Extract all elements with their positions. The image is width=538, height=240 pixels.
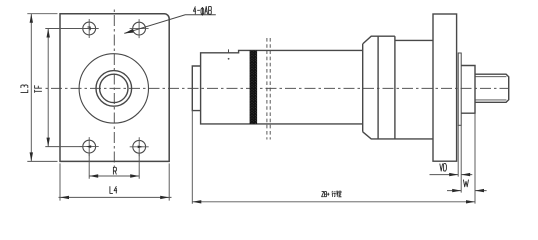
rod hub bbox=[461, 66, 475, 114]
flange (side view) bbox=[433, 14, 457, 161]
label L3 bbox=[21, 85, 28, 93]
bottom-left hole center mark bbox=[86, 145, 91, 148]
label TF bbox=[35, 85, 42, 93]
centerline vertical (front view) bbox=[113, 10, 115, 168]
dimension W bbox=[447, 113, 487, 203]
vent dot bbox=[228, 58, 230, 60]
dimension ZB+stroke bbox=[192, 111, 475, 204]
label VD bbox=[440, 164, 447, 171]
bolt hole top-left bbox=[80, 19, 99, 38]
thread lines bbox=[475, 77, 506, 100]
rear cap (side view) bbox=[192, 66, 200, 111]
pilot boss circle bbox=[79, 54, 148, 123]
centerline horizontal (both views) bbox=[46, 87, 509, 89]
threaded rod end bbox=[475, 74, 509, 102]
dimension L4 bbox=[59, 163, 172, 200]
bolt hole bottom-right bbox=[130, 137, 149, 156]
label ZB+ bbox=[322, 192, 330, 197]
neck section top edge bbox=[395, 39, 433, 41]
label L4 bbox=[110, 186, 117, 193]
bolt hole bottom-left bbox=[80, 137, 99, 156]
flange plate outline (front view) bbox=[60, 14, 169, 162]
label 4-phiAB bbox=[193, 6, 211, 15]
dimension L3 bbox=[27, 14, 57, 162]
hanzi xing bbox=[332, 191, 336, 197]
clamp band (dark speckled) bbox=[250, 50, 258, 124]
bolt hole top-right bbox=[130, 19, 149, 38]
bore outer circle bbox=[96, 71, 132, 107]
dimension TF bbox=[45, 29, 82, 147]
leader 4-phiAB bbox=[124, 15, 216, 34]
dimension R bbox=[89, 153, 139, 179]
vent tick on tube bbox=[228, 49, 230, 53]
label W bbox=[463, 180, 468, 187]
cylinder tube (side view) bbox=[201, 50, 363, 124]
bottom-right hole center mark bbox=[138, 146, 143, 149]
retainer strip bbox=[458, 53, 461, 125]
dimension VD bbox=[430, 125, 473, 192]
hanzi cheng bbox=[336, 191, 341, 197]
hidden line pair bbox=[267, 38, 270, 140]
front head block bbox=[363, 36, 433, 139]
bore inner circle bbox=[100, 74, 128, 102]
label R bbox=[113, 167, 116, 174]
